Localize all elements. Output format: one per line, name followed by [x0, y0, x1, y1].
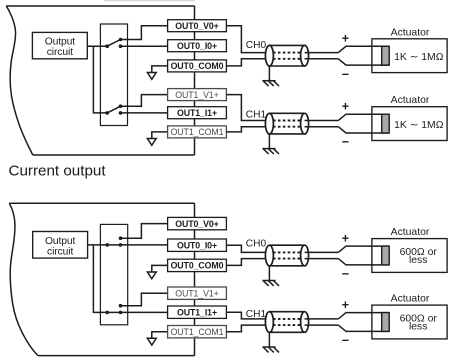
- channel label CH1: [246, 309, 267, 320]
- svg-text:circuit: circuit: [47, 47, 73, 58]
- svg-text:CH1: CH1: [246, 309, 267, 320]
- cable CH0 dashed inner conductors: [273, 53, 301, 59]
- actuator plug connector CH0: [338, 46, 389, 65]
- terminal box OUT0_COM0, section C (current output): [168, 259, 227, 271]
- actuator box CH1: [372, 305, 447, 339]
- wires cable CH0 to actuator plug: [305, 251, 339, 253]
- svg-text:1K ∼ 1MΩ: 1K ∼ 1MΩ: [394, 52, 444, 63]
- cable CH1 shield ground wire: [268, 134, 270, 149]
- cable CH1 right end ellipse: [301, 312, 309, 333]
- wire OUT0_COM0 to cable CH0 lower conductor: [226, 259, 269, 266]
- svg-text:circuit: circuit: [47, 246, 73, 257]
- actuator plug connector CH1: [338, 114, 389, 133]
- wire switch S1 lower contact to OUT1_I1+, section V (voltage output): [121, 112, 168, 114]
- svg-text:OUT0_COM0: OUT0_COM0: [171, 261, 224, 271]
- switch S0 lever, section C (current output): [107, 244, 120, 246]
- switch S0 contact dots, section C (current output): [105, 236, 122, 246]
- wire switch S1 lower contact to OUT1_I1+, section C (current output): [121, 311, 168, 313]
- svg-text:OUT0_V0+: OUT0_V0+: [175, 21, 218, 31]
- svg-text:Output: Output: [45, 37, 76, 48]
- cable CH0 right end ellipse: [301, 45, 309, 66]
- cable CH0 shield ground wire: [268, 66, 270, 81]
- wire switch S0 upper contact to OUT0_V0+, section C (current output): [121, 224, 168, 239]
- actuator load text CH1: [400, 314, 438, 333]
- actuator box CH0: [372, 39, 447, 73]
- cable CH1 left end ellipse: [265, 312, 273, 333]
- actuator label CH0: [391, 27, 430, 38]
- wire OUT1_COM1 to cable CH1 lower conductor: [226, 325, 269, 332]
- wire branch down to switch S1 common, section C (current output): [93, 245, 107, 313]
- chassis ground symbol at cable CH0: [262, 281, 279, 286]
- wire switch S0 lower contact to OUT0_I0+, section V (voltage output): [121, 45, 168, 47]
- svg-text:less: less: [409, 321, 427, 332]
- svg-text:less: less: [409, 255, 427, 266]
- section title Current output: [9, 163, 107, 180]
- cable CH0 right end ellipse: [301, 245, 309, 266]
- actuator terminal element (gray bar) CH0: [382, 246, 390, 265]
- actuator load text CH0: [400, 247, 438, 266]
- cable CH0 left end ellipse: [265, 245, 273, 266]
- terminal box OUT1_I1+, section C (current output): [168, 306, 227, 318]
- terminal box OUT1_COM1, section V (voltage output): [168, 126, 227, 138]
- terminal box OUT1_COM1, section C (current output): [168, 326, 227, 338]
- cable CH1 shield ground wire: [268, 332, 270, 347]
- channel label CH0: [246, 239, 267, 250]
- actuator box CH0: [372, 239, 447, 273]
- actuator label CH1: [391, 95, 430, 106]
- svg-text:OUT0_V0+: OUT0_V0+: [175, 219, 218, 229]
- channel label CH1: [246, 109, 267, 120]
- wires cable CH1 to actuator plug: [305, 120, 339, 122]
- wire OUT1_V1+ to cable CH1 upper conductor: [226, 95, 269, 121]
- cable CH0 shield ground wire: [268, 266, 270, 281]
- switch S1 contact dots, section C (current output): [105, 304, 122, 314]
- module outline left torn edge + borders, section C (current output): [9, 203, 194, 355]
- switch block rectangle, section C (current output): [100, 224, 127, 324]
- wire OUT1_I1+ to cable CH1 upper conductor: [226, 312, 269, 319]
- wire branch down to switch S1 common, section V (voltage output): [93, 46, 107, 113]
- svg-text:OUT1_V1+: OUT1_V1+: [175, 90, 218, 100]
- channel label CH0: [246, 40, 267, 51]
- svg-text:+: +: [342, 231, 349, 245]
- terminal box OUT1_V1+, section C (current output): [168, 287, 227, 299]
- module outline left torn edge + borders, section V (voltage output): [6, 6, 194, 155]
- svg-text:OUT1_I1+: OUT1_I1+: [177, 307, 217, 317]
- output circuit box, section C (current output): [33, 232, 88, 259]
- wire OUT1_COM1 to cable CH1 lower conductor: [226, 127, 269, 132]
- actuator plug connector CH1: [338, 313, 389, 332]
- actuator box CH1: [372, 107, 447, 141]
- wire output circuit to switch S0 common, section C (current output): [88, 244, 107, 246]
- cable CH1 dashed inner conductors: [273, 121, 301, 127]
- shielded twisted cable CH0 cylinder body: [269, 45, 304, 66]
- terminal box OUT1_I1+, section V (voltage output): [168, 107, 227, 119]
- FG arrow at OUT0_COM0, section C (current output): [147, 265, 167, 278]
- svg-text:Output: Output: [45, 236, 76, 247]
- wire switch S1 upper contact to OUT1_V1+, section V (voltage output): [121, 95, 168, 107]
- svg-text:Actuator: Actuator: [391, 227, 430, 238]
- svg-text:Actuator: Actuator: [391, 95, 430, 106]
- svg-text:OUT0_I0+: OUT0_I0+: [177, 41, 217, 51]
- polarity plus label CH0: [342, 231, 349, 245]
- svg-text:CH1: CH1: [246, 109, 267, 120]
- svg-text:Current output: Current output: [9, 163, 107, 180]
- polarity minus label CH1: [342, 135, 349, 149]
- switch S1 lever, section V (voltage output): [107, 106, 120, 113]
- terminal box OUT0_COM0, section V (voltage output): [168, 60, 227, 72]
- terminal box OUT0_I0+, section V (voltage output): [168, 40, 227, 52]
- switch S1 lever, section C (current output): [107, 311, 120, 313]
- actuator label CH1: [391, 294, 430, 305]
- cable CH0 left end ellipse: [265, 45, 273, 66]
- svg-text:OUT0_I0+: OUT0_I0+: [177, 240, 217, 250]
- wire output circuit to switch S0 common, section V (voltage output): [87, 45, 107, 47]
- svg-text:Actuator: Actuator: [391, 27, 430, 38]
- faint cropped line at very top: [104, 0, 195, 2]
- wire OUT0_COM0 to cable CH0 lower conductor: [226, 59, 269, 66]
- chassis ground symbol at cable CH1: [262, 347, 279, 352]
- chassis ground symbol at cable CH0: [262, 81, 279, 86]
- shielded twisted cable CH1 cylinder body: [269, 312, 304, 333]
- actuator plug connector CH0: [338, 246, 389, 265]
- polarity minus label CH0: [342, 67, 349, 81]
- svg-text:−: −: [342, 67, 349, 81]
- svg-text:Actuator: Actuator: [391, 294, 430, 305]
- terminal box OUT0_V0+, section V (voltage output): [168, 20, 227, 32]
- polarity plus label CH1: [342, 99, 349, 113]
- svg-text:OUT1_COM1: OUT1_COM1: [171, 127, 224, 137]
- svg-text:CH0: CH0: [246, 40, 267, 51]
- chassis ground symbol at cable CH1: [262, 149, 279, 154]
- terminal chain vertical line, section C (current output): [194, 203, 196, 355]
- svg-text:−: −: [342, 135, 349, 149]
- output circuit box, section V (voltage output): [32, 32, 87, 58]
- wire OUT0_V0+ to cable CH0 upper conductor: [226, 26, 269, 53]
- svg-text:OUT0_COM0: OUT0_COM0: [171, 61, 224, 71]
- svg-text:−: −: [342, 267, 349, 281]
- svg-text:OUT1_I1+: OUT1_I1+: [177, 108, 217, 118]
- terminal chain vertical line, section V (voltage output): [194, 6, 196, 155]
- svg-text:−: −: [342, 334, 349, 348]
- shielded twisted cable CH0 cylinder body: [269, 245, 304, 266]
- actuator terminal element (gray bar) CH1: [382, 313, 390, 332]
- wire switch S0 lower contact to OUT0_I0+, section C (current output): [121, 244, 168, 246]
- svg-text:+: +: [342, 32, 349, 46]
- terminal box OUT0_V0+, section C (current output): [168, 217, 227, 229]
- svg-text:CH0: CH0: [246, 239, 267, 250]
- polarity minus label CH0: [342, 267, 349, 281]
- actuator terminal element (gray bar) CH0: [382, 46, 390, 65]
- actuator label CH0: [391, 227, 430, 238]
- switch S0 lever, section V (voltage output): [107, 40, 120, 47]
- wire switch S0 upper contact to OUT0_V0+, section V (voltage output): [121, 26, 168, 40]
- switch S0 contact dots, section V (voltage output): [105, 38, 122, 48]
- actuator terminal element (gray bar) CH1: [382, 114, 390, 133]
- svg-text:OUT1_V1+: OUT1_V1+: [175, 288, 218, 298]
- FG arrow at OUT1_COM1, section V (voltage output): [147, 132, 167, 145]
- switch block rectangle, section V (voltage output): [100, 24, 127, 126]
- shielded twisted cable CH1 cylinder body: [269, 113, 304, 134]
- svg-text:+: +: [342, 298, 349, 312]
- cable CH1 left end ellipse: [265, 113, 273, 134]
- actuator load text CH1: [394, 120, 444, 131]
- svg-text:OUT1_COM1: OUT1_COM1: [171, 327, 224, 337]
- wire OUT0_I0+ to cable CH0 upper conductor: [226, 245, 269, 252]
- cable CH1 dashed inner conductors: [273, 319, 301, 325]
- cable CH0 dashed inner conductors: [273, 252, 301, 258]
- svg-text:+: +: [342, 99, 349, 113]
- terminal box OUT0_I0+, section C (current output): [168, 239, 227, 251]
- polarity plus label CH0: [342, 32, 349, 46]
- actuator load text CH0: [394, 52, 444, 63]
- polarity minus label CH1: [342, 334, 349, 348]
- cable CH1 right end ellipse: [301, 113, 309, 134]
- wire switch S1 upper contact to OUT1_V1+, section C (current output): [121, 293, 168, 306]
- wires cable CH1 to actuator plug: [305, 318, 339, 320]
- wires cable CH0 to actuator plug: [305, 52, 339, 54]
- FG arrow at OUT0_COM0, section V (voltage output): [147, 66, 167, 79]
- FG arrow at OUT1_COM1, section C (current output): [147, 332, 167, 345]
- switch S1 contact dots, section V (voltage output): [105, 104, 122, 114]
- svg-text:1K ∼ 1MΩ: 1K ∼ 1MΩ: [394, 120, 444, 131]
- terminal box OUT1_V1+, section V (voltage output): [168, 89, 227, 101]
- polarity plus label CH1: [342, 298, 349, 312]
